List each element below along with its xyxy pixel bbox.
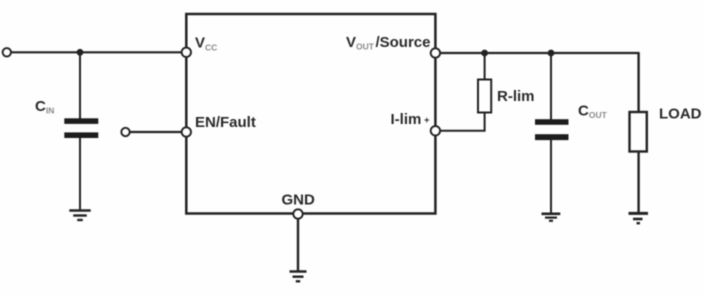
node R-lim junction <box>481 50 488 57</box>
wire C_OUT bottom <box>550 140 552 214</box>
wire LOAD top <box>637 53 639 113</box>
resistor LOAD <box>630 112 647 152</box>
EN input terminal <box>121 128 129 136</box>
resistor R-lim <box>478 80 491 113</box>
ground (C_IN) <box>69 211 90 221</box>
input terminal <box>3 48 11 56</box>
wire output rail <box>440 52 640 54</box>
node C_OUT junction <box>548 50 555 57</box>
wire C_IN bottom <box>79 138 81 211</box>
pin EN/Fault <box>182 127 191 136</box>
capacitor C_IN <box>64 118 98 138</box>
wire C_IN top <box>79 52 81 119</box>
wire GND <box>297 218 299 271</box>
wire R-lim top <box>484 53 486 80</box>
IC box U1 <box>186 14 435 214</box>
svg-text:R-lim: R-lim <box>497 88 535 105</box>
wire R-lim bottom to I-lim <box>440 113 485 131</box>
svg-text:CIN: CIN <box>35 98 54 116</box>
ground (LOAD) <box>629 213 649 223</box>
pin I-lim <box>431 126 440 135</box>
svg-text:LOAD: LOAD <box>659 105 702 122</box>
wire EN input <box>129 131 186 133</box>
capacitor C_OUT <box>535 119 569 140</box>
ground (C_OUT) <box>542 214 561 221</box>
svg-text:COUT: COUT <box>578 102 608 120</box>
wire LOAD bottom <box>637 152 639 213</box>
ground (GND pin) <box>290 272 307 282</box>
wire C_OUT top <box>550 53 552 120</box>
node input junction <box>77 49 84 56</box>
svg-text:EN/Fault: EN/Fault <box>195 114 256 131</box>
svg-text:GND: GND <box>282 191 316 208</box>
wire input rail <box>10 51 186 53</box>
pin GND <box>293 209 302 218</box>
pin VCC <box>182 48 191 57</box>
pin VOUT/Source <box>431 48 440 57</box>
